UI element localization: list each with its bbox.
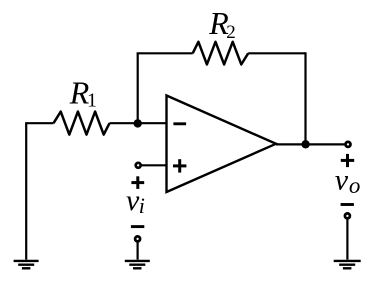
wire: R1 right lead to op-amp inverting input	[110, 122, 167, 124]
terminal: vi + (open circle)	[136, 163, 141, 168]
ground (vo return)	[334, 261, 361, 268]
resistor R1	[54, 112, 110, 135]
polarity − for vo	[341, 203, 354, 206]
polarity + for vi	[131, 176, 144, 189]
ground (vi return)	[125, 261, 150, 268]
op-amp non-inverting input marker (plus)	[173, 159, 186, 172]
junction node A (inverting input / feedback tap)	[134, 119, 142, 127]
svg-text:o: o	[349, 173, 361, 198]
wire: feedback riser from node A	[137, 53, 139, 123]
wire: vi − terminal down to ground	[137, 242, 139, 260]
op-amp inverting input marker (minus)	[173, 122, 186, 125]
resistor R2	[193, 42, 249, 65]
wire: vo − terminal down to ground	[346, 219, 348, 260]
svg-text:v: v	[335, 163, 349, 196]
wire: feedback top, left segment	[137, 52, 193, 54]
polarity + for vo	[341, 154, 354, 167]
op-amp U1	[167, 96, 277, 193]
terminal: vo + (open circle)	[346, 142, 351, 147]
ground (left, input return)	[14, 261, 39, 268]
wire: op-amp output to vo + terminal	[276, 143, 346, 145]
svg-text:2: 2	[226, 22, 236, 43]
wire: feedback top, right segment	[248, 52, 305, 54]
terminal: vo − (open circle)	[345, 213, 350, 218]
svg-text:1: 1	[87, 90, 97, 112]
terminal: vi − (open circle)	[135, 236, 140, 241]
junction node B (output / feedback tap)	[301, 140, 309, 148]
wire: feedback drop to output node	[304, 52, 306, 144]
wire: vi + terminal to op-amp non-inverting input	[139, 164, 167, 166]
wire: R1 left lead and left vertical down to ground	[26, 123, 53, 259]
polarity − for vi	[131, 225, 144, 228]
svg-text:i: i	[139, 193, 145, 218]
